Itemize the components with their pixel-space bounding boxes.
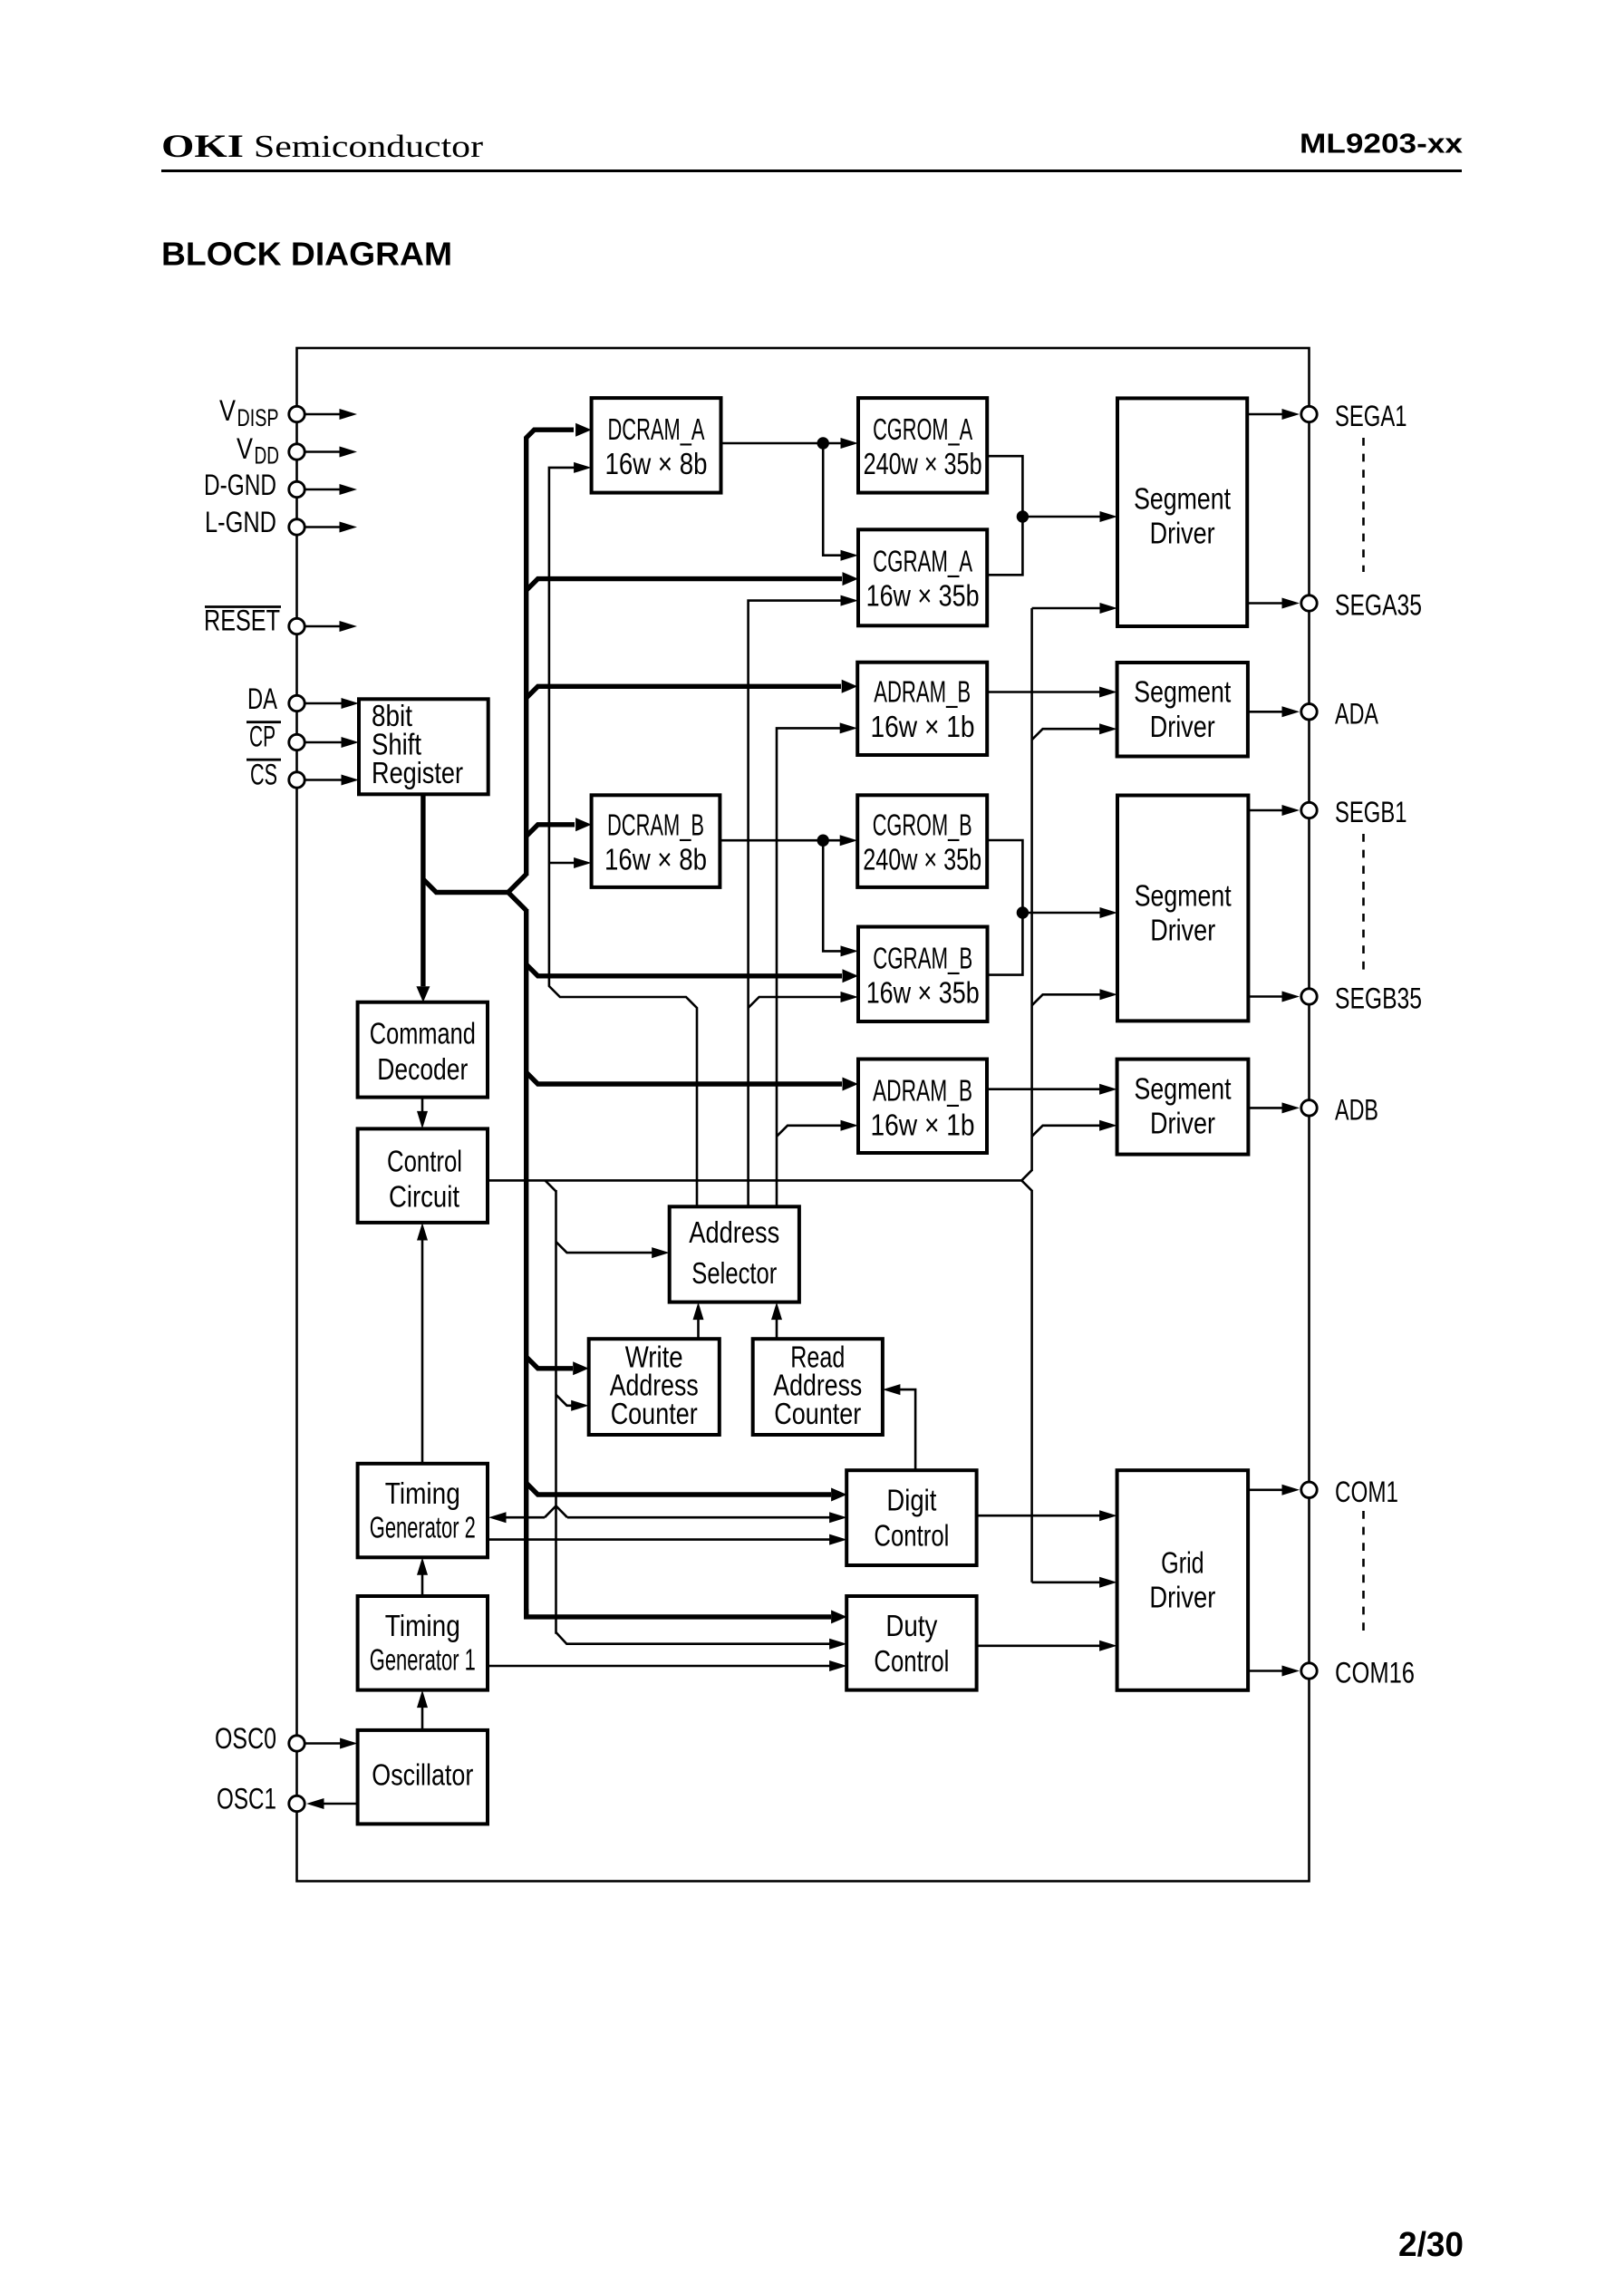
dashed line COM1 to COM16 [1362,1511,1365,1638]
svg-text:V: V [219,394,237,427]
wire CGRAM_A output [987,517,1022,575]
wire output to ADA pin [1248,711,1284,713]
svg-text:Segment: Segment [1135,1072,1232,1106]
svg-text:240w × 35b: 240w × 35b [864,448,982,481]
wire output to ADB pin [1248,1107,1283,1109]
wire data bus branch to ADRAM_B block [527,1072,842,1084]
wire data bus fork down [508,893,527,911]
wire DA input stub [305,702,343,705]
svg-text:Duty: Duty [885,1610,937,1643]
block DCRAM_A [592,398,721,492]
svg-text:Driver: Driver [1150,915,1215,948]
wire control vertical left column [555,1190,557,1634]
svg-text:DD: DD [255,441,280,469]
svg-text:Selector: Selector [691,1257,777,1291]
pin RESET [289,618,304,634]
svg-text:DCRAM_B: DCRAM_B [607,809,704,843]
block CGRAM_A [858,529,987,625]
wire segment B data into segment driver 3 [1022,912,1101,915]
block oscillator [358,1730,488,1825]
svg-text:SEGA35: SEGA35 [1335,589,1422,622]
svg-text:OSC0: OSC0 [215,1722,276,1755]
junction dot segment A data [1017,510,1029,522]
pin OSC0 [289,1736,304,1751]
wire VDISP input stub [305,413,342,416]
svg-text:Circuit: Circuit [389,1181,460,1215]
pin CP [289,734,304,750]
wire data bus branch from shift register line [423,879,508,893]
svg-text:Digit: Digit [886,1485,937,1518]
wire control corner into grid driver [1032,1582,1101,1584]
pin CS [289,772,304,788]
wire control branch down slant [546,1180,556,1191]
block CGROM_A [858,398,987,492]
svg-text:ADRAM_B: ADRAM_B [874,676,971,710]
wire control corner into segment driver 1 [1032,607,1101,610]
svg-text:ML9203-xx: ML9203-xx [1300,128,1464,160]
wire L-GND input stub [305,526,342,528]
svg-text:2/30: 2/30 [1398,2226,1464,2264]
block 8bit shift register [359,699,488,794]
block DCRAM_B [592,795,720,887]
wire output to SEGA1 pin [1247,413,1283,416]
wire read address counter to address selector [776,1318,778,1339]
wire oscillator to timing generator 1 [421,1706,424,1730]
pin COM16 [1301,1663,1317,1679]
wire timing generator 1 to timing generator 2 [421,1573,424,1596]
wire dcram address branch to DCRAM_B [549,862,575,865]
wire timing generator 1 to duty control [488,1665,831,1668]
svg-text:CGRAM_A: CGRAM_A [873,545,972,578]
svg-text:Timing: Timing [385,1610,460,1643]
svg-text:CGROM_A: CGROM_A [873,413,972,447]
svg-text:SEGA1: SEGA1 [1335,400,1407,432]
wire CP input stub [305,741,343,744]
block digit control [846,1470,976,1565]
svg-text:BLOCK DIAGRAM: BLOCK DIAGRAM [161,235,452,272]
svg-text:Control: Control [874,1645,949,1679]
svg-text:Generator 2: Generator 2 [370,1512,476,1545]
block segment driver 2 [1117,663,1248,757]
wire control branch to address selector [556,1242,654,1253]
wire segment A data into segment driver 1 [1022,516,1101,518]
wire control circuit output [488,1179,1021,1182]
wire duty control to grid driver [977,1645,1101,1648]
wire control corner into duty control [556,1632,832,1644]
pin DA [289,695,304,711]
block command decoder [358,1002,488,1098]
wire data bus fork up [508,875,527,893]
wire DCRAM_A output to CGROM_A [721,442,843,445]
wire digit control to grid driver [977,1515,1101,1517]
svg-text:Segment: Segment [1134,676,1232,710]
pin SEGA1 [1301,406,1317,421]
wire control branch to segment driver 4 [1032,1126,1101,1137]
wire timing generator 2 to control circuit [421,1239,424,1464]
block segment driver 4 [1117,1060,1249,1155]
block control circuit [358,1128,488,1223]
block write address counter [589,1339,720,1435]
wire data bus vertical down [524,909,528,1617]
wire dcram address vertical [549,468,697,1206]
wire data bus branch to DCRAM_B [527,825,575,837]
block ADRAM_B [858,1060,987,1154]
wire DCRAM_B output to CGROM_B [720,839,841,842]
wire CS input stub [305,779,343,781]
wire output to COM16 pin [1248,1670,1283,1672]
block timing generator 2 [358,1464,488,1558]
wire command decoder to control circuit [421,1098,424,1113]
junction dot DCRAM_B output [817,835,829,847]
svg-text:OSC1: OSC1 [217,1783,276,1815]
wire write address counter to address selector [697,1318,700,1339]
wire data bus bottom corner into duty control [527,1609,831,1617]
wire digit control timing generator 2 bidirectional [504,1516,545,1519]
pin VDD [289,444,304,460]
wire control line fork up slant [1021,1170,1032,1181]
svg-text:Driver: Driver [1149,1581,1215,1614]
svg-text:Oscillator: Oscillator [372,1759,473,1793]
svg-text:16w × 1b: 16w × 1b [871,711,975,744]
block timing generator 1 [358,1596,488,1690]
junction dot DCRAM_A output [817,437,829,449]
block duty control [846,1596,976,1690]
wire VDD input stub [305,450,342,453]
svg-text:Register: Register [372,757,463,790]
wire control branch to segment driver 3 [1032,994,1101,1005]
svg-text:Segment: Segment [1134,483,1232,517]
svg-text:L-GND: L-GND [205,506,276,538]
wire control line fork down slant [1021,1180,1032,1191]
wire ADRAM_B output to segment driver 4 [987,1088,1100,1090]
wire data bus branch to CGRAM_A [527,579,842,591]
svg-text:16w × 1b: 16w × 1b [871,1108,975,1142]
wire timing generator 2 to digit control [488,1538,831,1541]
svg-text:Grid: Grid [1161,1547,1204,1581]
chip outline border [297,348,1310,1882]
wire control branch to write address counter [556,1395,574,1406]
svg-text:Command: Command [370,1018,476,1051]
wire control branch to segment driver 2 [1032,729,1101,740]
svg-text:16w × 8b: 16w × 8b [604,844,707,877]
pin D-GND [289,481,304,497]
wire data bus branch to digit control [527,1483,831,1495]
svg-text:16w × 35b: 16w × 35b [866,579,980,613]
svg-text:CGROM_B: CGROM_B [873,809,972,843]
wire data bus branch to CGRAM_B [527,964,842,976]
svg-text:16w × 35b: 16w × 35b [866,976,980,1010]
wire D-GND input stub [305,489,342,491]
svg-text:D-GND: D-GND [204,469,276,501]
svg-text:ADB: ADB [1335,1093,1378,1126]
svg-text:240w × 35b: 240w × 35b [863,844,981,877]
svg-text:V: V [237,432,254,465]
pin COM1 [1301,1482,1317,1497]
svg-text:ADRAM_B: ADRAM_B [873,1074,972,1108]
pin OSC1 [289,1796,304,1811]
wire output to SEGB1 pin [1248,809,1283,812]
svg-text:ADA: ADA [1335,697,1378,730]
wire data bus branch to ADRAM_A block [527,686,841,698]
svg-text:SEGB35: SEGB35 [1335,982,1422,1015]
header rule [161,169,1462,172]
svg-text:SEGB1: SEGB1 [1335,796,1407,828]
svg-text:CGRAM_B: CGRAM_B [873,942,972,975]
svg-text:Timing: Timing [385,1477,460,1511]
wire data bus vertical up [524,437,528,876]
wire output to COM1 pin [1248,1489,1283,1492]
svg-text:16w × 8b: 16w × 8b [605,448,708,481]
svg-text:Counter: Counter [774,1398,861,1431]
pin VDISP [289,406,304,421]
svg-text:CP: CP [249,721,275,753]
wire OSC1 output stub [323,1803,358,1805]
wire DCRAM_B output branch to CGRAM_B [823,840,842,951]
wire digit control to read address counter [899,1389,915,1473]
wire output to SEGA35 pin [1247,602,1283,605]
wire output to SEGB35 pin [1248,995,1283,998]
wire data bus branch to write address counter [527,1357,573,1369]
svg-text:DA: DA [247,682,277,715]
pin ADB [1301,1100,1317,1116]
svg-text:Semiconductor: Semiconductor [254,129,483,164]
wire adram address vertical [777,728,841,1206]
wire cgram address branch to CGRAM_B [749,997,842,1008]
svg-text:Decoder: Decoder [377,1053,468,1087]
svg-text:DISP: DISP [237,404,279,431]
pin SEGB35 [1301,989,1317,1004]
svg-text:CS: CS [250,759,277,791]
block segment driver 1 [1117,398,1247,626]
svg-text:Driver: Driver [1150,711,1215,744]
block CGROM_B [857,795,987,887]
svg-text:Driver: Driver [1150,518,1215,551]
pin SEGA35 [1301,595,1317,611]
svg-text:Driver: Driver [1150,1108,1215,1141]
svg-text:Control: Control [874,1519,949,1553]
wire control vertical right column [1030,608,1033,1171]
wire cgram address vertical [749,601,842,1207]
svg-text:RESET: RESET [204,605,280,637]
svg-text:COM1: COM1 [1335,1476,1398,1508]
dashed line SEGB1 to SEGB35 [1362,834,1365,970]
wire adram address branch to ADRAM_B block [777,1126,842,1137]
wire OSC0 input stub [305,1742,342,1745]
svg-text:Segment: Segment [1135,880,1232,914]
svg-text:DCRAM_A: DCRAM_A [608,413,705,447]
dashed line SEGA1 to SEGA35 [1362,438,1365,572]
svg-text:Control: Control [387,1146,462,1179]
junction dot segment B data [1017,906,1029,918]
svg-text:COM16: COM16 [1335,1657,1415,1689]
pin SEGB1 [1301,802,1317,818]
block segment driver 3 [1117,796,1248,1021]
svg-text:Generator 1: Generator 1 [370,1644,476,1678]
wire data bus top corner into DCRAM_A [527,430,574,438]
wire DCRAM_A output branch to CGRAM_A [823,443,842,556]
wire ADRAM_A output to segment driver 2 [987,691,1100,693]
block read address counter [753,1339,883,1435]
wire shift register to command decoder [420,794,425,986]
svg-text:OKI: OKI [161,128,244,164]
pin ADA [1301,704,1317,720]
svg-text:Address: Address [689,1216,779,1250]
wire RESET input stub [305,625,342,628]
svg-text:Counter: Counter [611,1398,698,1431]
block ADRAM_A labeled ADRAM_B [857,663,987,755]
pin L-GND [289,519,304,535]
block address selector [670,1206,799,1302]
wire CGROM_A output [987,456,1022,517]
wire CGRAM_B output [987,913,1022,975]
block grid driver [1117,1470,1249,1690]
block CGRAM_B [858,927,988,1022]
wire CGROM_B output [987,840,1022,913]
